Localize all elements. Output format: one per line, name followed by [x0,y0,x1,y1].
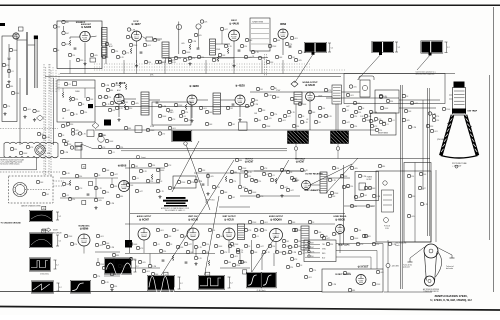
svg-text:YEL: YEL [322,244,325,246]
svg-text:.005: .005 [354,168,358,170]
svg-text:220: 220 [201,57,204,59]
svg-text:.01: .01 [11,71,14,73]
svg-text:5.2: 5.2 [59,216,62,218]
svg-text:390: 390 [248,176,251,178]
svg-text:.01: .01 [136,178,139,180]
svg-text:.047: .047 [139,191,143,193]
svg-text:.005: .005 [268,118,272,120]
svg-text:.047: .047 [102,97,106,99]
svg-text:ION TRAP: ION TRAP [468,110,478,113]
svg-text:390: 390 [114,286,117,288]
svg-text:.001: .001 [146,271,150,273]
svg-text:5.2: 5.2 [136,266,139,268]
svg-text:270: 270 [74,244,77,246]
svg-text:.01: .01 [346,110,349,112]
svg-text:.005: .005 [370,206,374,208]
svg-text:(2ND ANODE): (2ND ANODE) [437,138,448,141]
svg-text:② 6CN7: ② 6CN7 [245,161,254,164]
svg-text:pull-cord: pull-cord [403,266,410,269]
svg-text:150: 150 [106,192,109,194]
svg-text:150: 150 [350,186,353,188]
svg-text:2.2M: 2.2M [332,284,336,286]
svg-text:.005: .005 [135,103,139,105]
svg-text:② 6DQ6A: ② 6DQ6A [270,218,282,222]
svg-text:.001: .001 [264,222,268,224]
svg-text:270: 270 [185,112,188,114]
svg-text:① 4BZ7: ① 4BZ7 [131,22,141,26]
svg-text:.01: .01 [62,118,64,120]
svg-text:390: 390 [390,101,393,103]
svg-text:680: 680 [228,262,231,264]
svg-text:.02: .02 [306,119,308,121]
svg-text:.001: .001 [308,277,312,279]
svg-text:270: 270 [289,44,292,46]
svg-text:HOT PLT: HOT PLT [245,158,253,160]
svg-text:@ 30 (Vert): @ 30 (Vert) [40,273,49,276]
svg-text:680: 680 [298,246,301,248]
svg-text:U, 17E20, U, W, GM, 17E20Q, GU: U, 17E20, U, W, GM, 17E20Q, GU [430,298,471,302]
svg-text:.005: .005 [75,130,79,132]
svg-text:390: 390 [14,149,17,151]
svg-text:45: 45 [43,231,45,233]
svg-text:③ 4BZ8: ③ 4BZ8 [235,84,245,88]
svg-text:220: 220 [240,252,243,254]
svg-text:220: 220 [115,51,118,53]
svg-text:.047: .047 [422,188,426,190]
svg-text:.01: .01 [68,84,71,86]
svg-text:.005: .005 [353,86,357,88]
svg-text:680: 680 [120,196,123,198]
svg-text:270: 270 [313,270,316,272]
svg-text:.005: .005 [380,272,384,274]
svg-text:150: 150 [311,256,314,258]
svg-text:.01: .01 [112,152,115,154]
svg-text:ABOVE CHASSIS VIEW: ABOVE CHASSIS VIEW [21,204,41,207]
svg-text:20MH: 20MH [75,91,80,93]
svg-text:270: 270 [191,182,194,184]
svg-text:390: 390 [330,244,333,246]
svg-text:5.2: 5.2 [331,47,334,49]
svg-text:① 4AU8: ① 4AU8 [229,22,239,26]
svg-text:SOUND OUTPUT: SOUND OUTPUT [302,82,318,84]
svg-text:.01: .01 [392,120,395,122]
svg-text:.001: .001 [434,131,438,133]
svg-text:HORIZ: HORIZ [367,179,372,181]
svg-text:34: 34 [83,167,85,169]
svg-text:.001: .001 [147,45,151,47]
svg-text:.005: .005 [286,246,290,248]
svg-text:.047: .047 [114,174,118,176]
svg-text:TV CHASSIS GROUND: TV CHASSIS GROUND [1,221,22,224]
svg-text:.005: .005 [298,60,302,62]
svg-text:.01: .01 [157,244,160,246]
svg-text:.01: .01 [66,195,69,197]
svg-text:5.2: 5.2 [56,264,59,266]
svg-text:+: + [470,125,472,129]
svg-text:.005: .005 [99,245,103,247]
svg-text:390: 390 [148,62,151,64]
svg-text:.047: .047 [311,247,315,249]
svg-text:.001: .001 [27,109,31,111]
svg-text:150: 150 [112,110,115,112]
svg-text:2.2M: 2.2M [292,252,296,254]
svg-text:.005: .005 [181,43,185,45]
svg-text:2.2M: 2.2M [376,196,380,198]
svg-text:dial scale: dial scale [446,268,453,270]
svg-text:.001: .001 [106,268,110,270]
svg-text:390: 390 [152,165,155,167]
svg-text:2.2M: 2.2M [162,106,166,108]
svg-text:.001: .001 [294,38,298,40]
svg-text:270: 270 [274,114,277,116]
svg-text:⑤ 5Y3GT: ⑤ 5Y3GT [358,264,369,268]
svg-text:.047: .047 [287,116,291,118]
svg-text:150: 150 [103,135,106,137]
svg-text:2.2M: 2.2M [110,247,114,249]
svg-text:.01: .01 [256,236,259,238]
svg-text:.001: .001 [358,197,362,199]
svg-text:BRIGHTNESS: BRIGHTNESS [378,133,388,135]
svg-text:270: 270 [233,181,236,183]
svg-text:220: 220 [188,120,191,122]
svg-text:220: 220 [72,199,75,201]
svg-text:.001: .001 [350,95,354,97]
svg-text:④ 6BU8: ④ 6BU8 [118,165,127,168]
svg-text:SOUND DISC: SOUND DISC [78,225,90,227]
svg-text:② 4BZ8: ② 4BZ8 [189,84,199,88]
svg-text:② 6CU8: ② 6CU8 [188,218,198,222]
svg-text:.01: .01 [232,246,235,248]
svg-text:.005: .005 [142,262,146,264]
svg-text:.01: .01 [187,60,190,62]
svg-text:150: 150 [244,46,247,48]
svg-text:390: 390 [298,241,301,243]
svg-text:270: 270 [97,276,100,278]
svg-text:5.2: 5.2 [230,282,233,284]
svg-text:defective filter capacitor.: defective filter capacitor. [416,73,436,76]
svg-text:.005: .005 [406,120,410,122]
svg-text:270: 270 [108,97,111,99]
svg-text:.01: .01 [272,175,275,177]
svg-text:390: 390 [254,180,257,182]
svg-text:270: 270 [7,106,10,108]
svg-text:150: 150 [296,126,299,128]
svg-text:220: 220 [57,26,60,28]
svg-text:.005: .005 [98,200,102,202]
svg-text:2.2M: 2.2M [254,104,258,106]
svg-text:.047: .047 [188,244,192,246]
svg-text:② 6CU5: ② 6CU5 [224,218,234,222]
svg-text:680: 680 [258,120,261,122]
svg-text:150: 150 [436,120,439,122]
svg-text:2.2M: 2.2M [412,127,416,129]
svg-text:150: 150 [205,202,208,204]
svg-text:2.2M: 2.2M [64,152,68,154]
svg-text:150: 150 [411,176,414,178]
svg-text:① 6AW8: ① 6AW8 [81,25,92,29]
svg-text:150: 150 [322,108,325,110]
svg-text:2.2M: 2.2M [105,85,109,87]
svg-text:.005: .005 [210,176,214,178]
svg-text:220: 220 [379,130,382,132]
svg-text:.001: .001 [203,108,207,110]
svg-text:DC RST RECEIVER: DC RST RECEIVER [305,174,323,176]
svg-text:150: 150 [84,112,87,114]
svg-text:680: 680 [130,37,133,39]
svg-text:680: 680 [352,290,355,292]
svg-text:680: 680 [382,166,385,168]
svg-text:220: 220 [354,116,357,118]
svg-text:.005: .005 [94,55,98,57]
svg-text:270: 270 [240,250,243,252]
svg-text:.001: .001 [282,120,286,122]
svg-text:② 6CN7: ② 6CN7 [296,161,305,164]
svg-text:Count: Count [141,156,146,159]
svg-text:.001: .001 [160,230,164,232]
svg-text:150: 150 [272,246,275,248]
svg-text:.047: .047 [66,110,70,112]
svg-text:680: 680 [277,40,280,42]
svg-text:220: 220 [354,126,357,128]
svg-text:220: 220 [163,251,166,253]
svg-text:680: 680 [354,206,357,208]
svg-text:.01: .01 [386,124,389,126]
svg-text:.047: .047 [346,122,350,124]
svg-text:250V: 250V [53,230,58,232]
svg-text:4BN6: 4BN6 [280,23,287,26]
svg-text:390: 390 [294,99,297,101]
svg-text:270: 270 [162,133,165,135]
svg-text:2.2M: 2.2M [192,41,196,43]
svg-text:.047: .047 [66,33,70,35]
svg-text:.005: .005 [411,216,415,218]
svg-text:.005: .005 [74,147,78,149]
svg-text:150: 150 [358,230,361,232]
svg-text:black: black [396,245,400,247]
svg-text:VERT MULT: VERT MULT [295,158,306,160]
svg-text:220: 220 [376,244,379,246]
svg-text:2.2M: 2.2M [131,29,135,31]
svg-text:5.2: 5.2 [180,283,183,285]
svg-text:150: 150 [72,55,75,57]
svg-text:.047: .047 [290,190,294,192]
svg-text:42: 42 [43,208,45,210]
svg-text:.001: .001 [234,256,238,258]
svg-text:② 6CM7: ② 6CM7 [139,218,150,222]
svg-text:.047: .047 [260,246,264,248]
svg-text:220: 220 [264,230,267,232]
svg-text:220: 220 [290,267,293,269]
svg-text:ZENITH CHASSIS 17E20,: ZENITH CHASSIS 17E20, [435,294,468,298]
svg-text:390: 390 [79,176,82,178]
svg-text:TUNER TERM: TUNER TERM [252,21,264,23]
svg-text:680: 680 [128,128,131,130]
svg-text:@ 60 (Vert): @ 60 (Vert) [257,289,266,292]
svg-text:.001: .001 [172,128,176,130]
svg-text:5.2: 5.2 [398,47,401,49]
svg-text:390: 390 [212,230,215,232]
svg-text:2.2M: 2.2M [110,203,114,205]
svg-text:5.2: 5.2 [447,47,450,49]
svg-text:220: 220 [75,99,78,101]
svg-text:680: 680 [110,90,113,92]
svg-text:5.2: 5.2 [59,240,62,242]
svg-text:.047: .047 [224,29,228,31]
svg-text:680: 680 [116,255,119,257]
svg-text:2.2M: 2.2M [152,266,156,268]
svg-text:4.5MC: 4.5MC [168,112,174,114]
svg-text:5.2: 5.2 [59,287,62,289]
svg-text:390: 390 [178,58,181,60]
svg-text:150: 150 [206,244,209,246]
svg-text:220: 220 [150,181,153,183]
svg-text:390: 390 [255,100,258,102]
svg-text:270: 270 [436,116,439,118]
svg-text:SOURCE: SOURCE [53,233,62,235]
svg-text:HEAT CAPS: HEAT CAPS [338,244,350,247]
svg-text:+B 135V: +B 135V [392,266,400,268]
svg-text:.047: .047 [326,238,330,240]
svg-text:680: 680 [373,121,376,123]
svg-text:+ 20,000V: + 20,000V [452,166,462,168]
svg-text:① 4BC8: ① 4BC8 [116,81,126,85]
svg-text:150: 150 [336,168,339,170]
svg-text:.01: .01 [183,116,186,118]
svg-text:220: 220 [258,181,261,183]
svg-text:COIL: COIL [385,228,389,230]
svg-text:.047: .047 [346,106,350,108]
svg-text:.001: .001 [100,236,104,238]
svg-text:680: 680 [239,160,242,162]
svg-text:270: 270 [126,52,129,54]
svg-text:② 6BG6: ② 6BG6 [335,218,345,222]
svg-text:2.2M: 2.2M [198,181,202,183]
svg-text:390: 390 [358,112,361,114]
svg-text:.01: .01 [266,174,269,176]
svg-text:.047: .047 [414,103,418,105]
svg-text:.005: .005 [198,35,202,37]
svg-text:680: 680 [10,86,13,88]
svg-text:② 6BN6: ② 6BN6 [80,227,89,230]
